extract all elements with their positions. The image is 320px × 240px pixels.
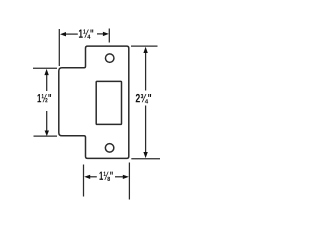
screw hole bottom — [105, 144, 114, 153]
dimension: right 2 3/4 — [131, 46, 160, 159]
label 1 1/2" — [37, 94, 51, 102]
arrowhead right — [123, 175, 129, 179]
ext line right (centerline tick) — [108, 29, 110, 43]
strike plate dimensioned drawing — [0, 0, 195, 218]
label 1 1/8" — [99, 172, 112, 181]
label 2 3/4" — [136, 94, 151, 103]
ext line left — [83, 165, 85, 197]
dim line segments — [66, 33, 78, 35]
ext line right — [128, 163, 130, 200]
arrowhead left — [60, 32, 66, 36]
ext line bottom — [131, 158, 160, 160]
arrowhead right — [103, 32, 109, 36]
arrowhead up — [143, 47, 147, 53]
dimension: top 1 1/4 — [59, 29, 109, 67]
ext line bottom — [34, 135, 58, 137]
arrowhead up — [44, 69, 48, 75]
ext line top — [33, 67, 57, 69]
dimension: bottom 1 1/8 — [84, 163, 130, 200]
dim line segments — [46, 75, 48, 92]
screw hole top — [105, 54, 114, 63]
latch cutout — [96, 81, 121, 124]
ext line top — [131, 45, 158, 47]
ext line left — [58, 29, 60, 66]
dim line segments — [145, 53, 147, 91]
arrowhead down — [45, 131, 49, 137]
dim line segments — [90, 176, 97, 178]
label 1 1/4" — [79, 29, 93, 38]
plate outline (T-shaped strike plate) — [59, 46, 129, 158]
arrowhead down — [143, 152, 147, 158]
arrowhead left — [84, 175, 90, 179]
dimension: left 1 1/2 — [33, 68, 57, 136]
